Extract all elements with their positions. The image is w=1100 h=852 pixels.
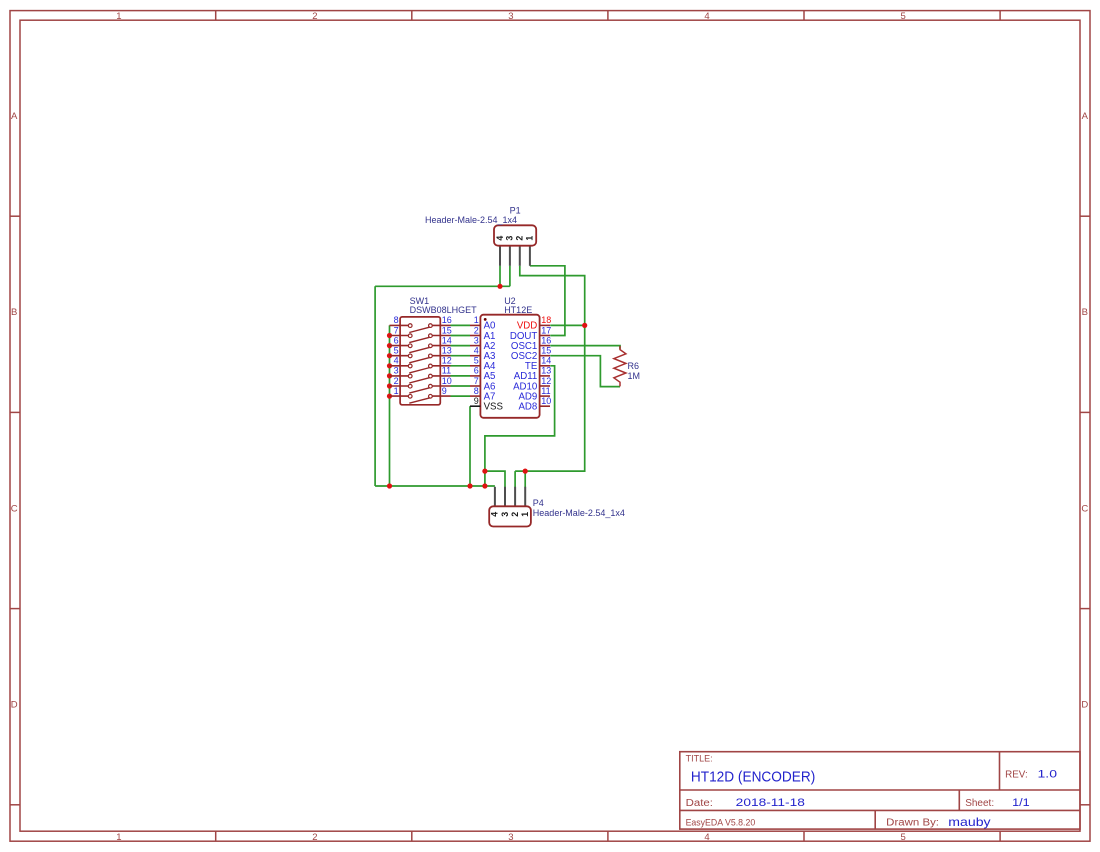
wire SW1 to U2 A3 row <box>451 355 471 357</box>
svg-text:16: 16 <box>442 315 452 325</box>
svg-text:7: 7 <box>474 376 479 386</box>
svg-text:15: 15 <box>541 346 551 356</box>
SW1 body <box>400 317 440 405</box>
svg-text:1: 1 <box>474 315 479 325</box>
junction dot 9 <box>467 483 472 488</box>
wire SW1 to U2 A5 row <box>451 375 471 377</box>
P4 pin stubs <box>495 487 525 507</box>
svg-text:2: 2 <box>515 236 525 241</box>
svg-text:7: 7 <box>394 325 399 335</box>
P4 body <box>489 506 531 526</box>
svg-text:mauby: mauby <box>948 815 990 829</box>
svg-text:2: 2 <box>474 325 479 335</box>
svg-text:1.0: 1.0 <box>1038 768 1058 780</box>
junction dot 12 <box>523 469 528 474</box>
svg-text:1: 1 <box>116 11 121 22</box>
svg-text:1M: 1M <box>628 371 641 381</box>
svg-text:Header-Male-2.54_1x4: Header-Male-2.54_1x4 <box>425 215 517 225</box>
svg-text:Header-Male-2.54_1x4: Header-Male-2.54_1x4 <box>533 508 625 518</box>
U2 left pins 1-9 <box>470 325 480 396</box>
wire P1 pin4 to GND junction <box>499 266 501 287</box>
svg-text:9: 9 <box>442 386 447 396</box>
wire U2 VSS down to GND <box>469 406 471 486</box>
resistor R6 1M <box>614 346 640 387</box>
svg-text:4: 4 <box>490 512 500 517</box>
wire SW1 to U2 A1 row <box>451 335 471 337</box>
junction dot 11 <box>482 469 487 474</box>
junction dot 7 <box>387 394 392 399</box>
svg-text:3: 3 <box>500 512 510 517</box>
wire GND horizontal under P1 <box>375 285 510 287</box>
P1 pin stubs <box>500 246 530 266</box>
U2 right pins 18-10 <box>540 325 550 406</box>
P1 pin numbers 4 3 2 1 <box>495 236 535 241</box>
svg-text:1: 1 <box>525 236 535 241</box>
svg-text:B: B <box>1082 307 1088 318</box>
svg-text:3: 3 <box>508 11 513 22</box>
U2 VSS pin 9 line <box>470 405 480 407</box>
junction dot 8 <box>387 483 392 488</box>
svg-text:REV:: REV: <box>1005 769 1028 780</box>
svg-text:17: 17 <box>541 325 551 335</box>
junction dot 14 <box>582 323 587 328</box>
svg-text:3: 3 <box>508 832 513 843</box>
svg-text:A: A <box>11 111 18 122</box>
connector P1 Header-Male-2.54_1x4 <box>425 206 536 266</box>
svg-text:5: 5 <box>474 356 479 366</box>
wire TE to GND net <box>485 366 555 486</box>
wire GND bottom horizontal to P4 pin4 <box>375 485 495 487</box>
wire U2 VDD pin18 to VDD vertical <box>550 324 585 326</box>
svg-text:6: 6 <box>394 335 399 345</box>
wire OSC1 to R6 top <box>550 346 620 349</box>
SW1 right pin numbers <box>442 315 452 396</box>
svg-text:C: C <box>1081 503 1088 514</box>
svg-text:B: B <box>11 307 17 318</box>
P4 pin numbers 4 3 2 1 <box>490 512 530 517</box>
junction dot 2 <box>387 343 392 348</box>
svg-text:Drawn By:: Drawn By: <box>886 818 939 829</box>
svg-text:1/1: 1/1 <box>1012 797 1030 809</box>
wire P4 pin1 down <box>524 471 526 487</box>
svg-text:2: 2 <box>312 11 317 22</box>
svg-text:18: 18 <box>541 315 551 325</box>
svg-text:HT12D (ENCODER): HT12D (ENCODER) <box>691 769 815 786</box>
svg-text:4: 4 <box>474 346 479 356</box>
svg-text:3: 3 <box>505 236 515 241</box>
svg-text:DSWB08LHGET: DSWB08LHGET <box>410 305 478 315</box>
wire SW1 to U2 A6 row <box>451 385 471 387</box>
wire OSC2 to R6 bottom <box>550 356 620 387</box>
wire SW1 to U2 A0 row <box>451 324 471 326</box>
svg-text:14: 14 <box>541 356 551 366</box>
U2 left pin names A0-A7 VSS <box>484 321 504 413</box>
svg-text:8: 8 <box>474 386 479 396</box>
svg-text:2018-11-18: 2018-11-18 <box>736 797 805 809</box>
svg-text:3: 3 <box>394 366 399 376</box>
svg-text:D: D <box>1081 700 1088 711</box>
title block <box>680 752 1080 829</box>
svg-text:9: 9 <box>474 396 479 406</box>
svg-text:5: 5 <box>394 346 399 356</box>
svg-text:EasyEDA V5.8.20: EasyEDA V5.8.20 <box>686 818 756 828</box>
svg-text:1: 1 <box>394 386 399 396</box>
svg-text:3: 3 <box>474 335 479 345</box>
svg-text:D: D <box>11 700 18 711</box>
svg-text:2: 2 <box>312 832 317 843</box>
svg-text:4: 4 <box>394 356 399 366</box>
wire VDD net: P1 pin2 right, down to P4 pin2 <box>515 266 585 471</box>
junction dot 5 <box>387 373 392 378</box>
SW1 pins <box>390 325 451 396</box>
svg-text:16: 16 <box>541 335 551 345</box>
wire SW1 to U2 A2 row <box>451 345 471 347</box>
wire SW1 to U2 A4 row <box>451 365 471 367</box>
svg-text:Date:: Date: <box>686 798 713 809</box>
svg-text:2: 2 <box>394 376 399 386</box>
wire P4 pin3 to GND junction <box>485 471 505 487</box>
svg-text:11: 11 <box>442 366 451 376</box>
junction dot 6 <box>387 383 392 388</box>
svg-text:4: 4 <box>704 832 709 843</box>
svg-text:1: 1 <box>116 832 121 843</box>
svg-text:R6: R6 <box>628 361 640 371</box>
svg-text:11: 11 <box>541 386 550 396</box>
svg-text:1: 1 <box>520 512 530 517</box>
wire SW1 to U2 A7 row <box>451 395 471 397</box>
svg-text:14: 14 <box>442 335 452 345</box>
wire GND left vertical <box>374 286 376 486</box>
svg-text:13: 13 <box>442 346 452 356</box>
U2 left pin numbers <box>474 315 479 406</box>
junction dot 1 <box>387 333 392 338</box>
svg-text:13: 13 <box>541 366 551 376</box>
svg-text:4: 4 <box>495 236 505 241</box>
svg-text:10: 10 <box>442 376 452 386</box>
svg-text:A: A <box>1082 111 1089 122</box>
svg-text:C: C <box>11 503 18 514</box>
svg-text:P4: P4 <box>533 498 544 508</box>
junction dot 13 <box>497 284 502 289</box>
wire SW1 common left vertical <box>389 325 391 486</box>
switch SW1 DSWB08LHGET <box>390 296 478 405</box>
svg-text:15: 15 <box>442 325 452 335</box>
svg-text:AD8: AD8 <box>518 402 537 413</box>
connector P4 Header-Male-2.54_1x4 <box>489 487 625 527</box>
wire P1 pin3 down <box>509 266 511 287</box>
svg-text:6: 6 <box>474 366 479 376</box>
svg-text:2: 2 <box>510 512 520 517</box>
svg-text:10: 10 <box>541 396 551 406</box>
junction dot 4 <box>387 363 392 368</box>
SW1 left pin numbers <box>394 315 399 396</box>
SW1 contact circles <box>408 324 432 398</box>
IC U2 HT12E <box>470 296 551 418</box>
U2 pin-1 indicator dot <box>484 318 487 321</box>
wire DOUT net: P1 pin1 to U2 pin17 <box>530 266 565 336</box>
svg-text:5: 5 <box>900 832 905 843</box>
svg-text:8: 8 <box>394 315 399 325</box>
junction dot 3 <box>387 353 392 358</box>
wire P4 pin2 down <box>514 471 516 487</box>
svg-text:12: 12 <box>541 376 551 386</box>
svg-text:4: 4 <box>704 11 709 22</box>
P1 body <box>494 225 536 245</box>
SW1 levers <box>409 327 430 403</box>
svg-text:Sheet:: Sheet: <box>965 798 994 809</box>
U2 right pin names <box>510 321 538 413</box>
svg-text:VSS: VSS <box>484 402 504 413</box>
junction dot 10 <box>482 483 487 488</box>
svg-text:TITLE:: TITLE: <box>686 754 713 764</box>
U2 body <box>480 315 539 418</box>
svg-text:HT12E: HT12E <box>504 305 532 315</box>
svg-text:5: 5 <box>900 11 905 22</box>
svg-text:12: 12 <box>442 356 452 366</box>
U2 right pin numbers <box>541 315 551 406</box>
